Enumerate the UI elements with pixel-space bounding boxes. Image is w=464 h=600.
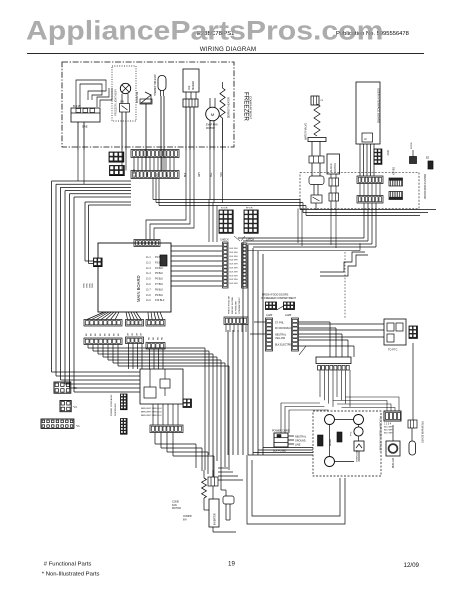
PTC plug [409, 326, 417, 338]
svg-text:*J4: *J4 [73, 406, 77, 409]
svg-text:PTC COMPRESSOR UNIT ASSY: PTC COMPRESSOR UNIT ASSY [379, 416, 382, 452]
motor protector connector [408, 420, 417, 428]
svg-text:AppliancePartsPros.com: AppliancePartsPros.com [26, 15, 384, 45]
wire fan-out bundle right [147, 312, 150, 320]
evaporator fan motor [206, 107, 220, 121]
svg-text:BLK WH: BLK WH [230, 248, 238, 250]
motor protector capsule [409, 441, 416, 455]
svg-text:BLK WH: BLK WH [230, 268, 238, 270]
svg-text:BLK ELECTRIC: BLK ELECTRIC [275, 344, 292, 347]
svg-text:THERMISTOR EVAP: THERMISTOR EVAP [154, 74, 157, 96]
svg-text:CHECK: CHECK [220, 239, 229, 242]
svg-text:ST. PNL: ST. PNL [275, 322, 284, 325]
svg-text:P9 BLK: P9 BLK [155, 294, 164, 297]
water dispenser connector [309, 156, 324, 163]
svg-text:BLK WH: BLK WH [230, 264, 238, 266]
svg-text:INVERTER: INVERTER [215, 513, 217, 525]
main board component [160, 255, 167, 266]
svg-text:RD: RD [153, 336, 155, 340]
svg-text:J1-2: J1-2 [146, 261, 151, 264]
water valve connector [311, 96, 319, 105]
extra bus wire [248, 250, 361, 252]
svg-text:WATER VALVE: WATER VALVE [305, 123, 308, 140]
svg-text:LATCH: LATCH [246, 239, 254, 242]
svg-text:DEFROST HEATER: DEFROST HEATER [228, 97, 231, 118]
svg-text:FZ DR: FZ DR [221, 208, 228, 210]
svg-text:PTC: PTC [351, 431, 353, 436]
svg-text:FREEZER: FREEZER [243, 92, 250, 121]
svg-text:YEL: YEL [211, 172, 213, 177]
svg-text:BLK WHT: BLK WHT [384, 430, 394, 432]
svg-text:COMPARTMENT: COMPARTMENT [238, 296, 241, 314]
svg-text:GRN: GRN [86, 283, 88, 288]
svg-text:P2 BLK: P2 BLK [155, 256, 164, 259]
wires from middle strip downward [128, 344, 130, 370]
svg-text:19: 19 [228, 561, 235, 568]
wires from right strip downward [149, 349, 151, 369]
tall connector strip P2 [242, 243, 248, 288]
water valve coil [314, 104, 320, 136]
svg-text:FRESH FOOD DR: FRESH FOOD DR [229, 295, 231, 314]
wire protector [411, 428, 413, 441]
main board left connector J5 [94, 258, 103, 267]
svg-text:OR: OR [136, 332, 138, 336]
wires control to strip [152, 404, 154, 425]
dispenser actuator [309, 176, 324, 185]
spare dark connector upper [121, 394, 128, 410]
svg-text:P10 BLK: P10 BLK [155, 299, 165, 302]
svg-text:SAE: SAE [82, 125, 88, 129]
svg-text:MOTOR: MOTOR [172, 507, 181, 510]
svg-text:BZ: BZ [426, 157, 430, 160]
svg-text:POWER CORD: POWER CORD [272, 430, 290, 433]
svg-text:J1-6: J1-6 [146, 283, 151, 286]
wires control strip down [154, 433, 156, 445]
svg-text:BRN WHT ORN BLU: BRN WHT ORN BLU [141, 408, 162, 410]
svg-text:ICE: ICE [187, 85, 191, 90]
svg-text:WIRING DIAGRAM: WIRING DIAGRAM [200, 46, 256, 53]
dispenser dashed enclosure [300, 173, 419, 209]
svg-text:BLK WH: BLK WH [230, 260, 238, 262]
svg-text:FREEZER LIGHT ASSY: FREEZER LIGHT ASSY [115, 89, 118, 116]
svg-text:M: M [211, 112, 214, 117]
svg-text:BLK FUSED: BLK FUSED [273, 450, 287, 453]
board output strip middle lower [126, 337, 144, 344]
wire PTC to terminal [412, 343, 414, 420]
lower junction pins [318, 366, 321, 371]
wires freezer strip down to board area [85, 201, 131, 203]
svg-text:P3 BLK: P3 BLK [155, 261, 164, 264]
svg-text:J1-1: J1-1 [146, 256, 151, 259]
svg-text:P6 BLK: P6 BLK [155, 278, 164, 281]
board output strip left lower [84, 338, 122, 345]
spare connector 2x2 [60, 401, 71, 412]
svg-text:BLK WH: BLK WH [230, 279, 238, 281]
wires relay cluster [203, 498, 205, 510]
bus wires upper band [152, 179, 154, 200]
wires dispenser box to lower bus [297, 209, 299, 244]
start relay label block [318, 435, 324, 446]
connector below harness note [224, 317, 248, 325]
svg-text:# Functional Parts: # Functional Parts [44, 562, 92, 568]
svg-text:WIRING SHOWN: WIRING SHOWN [232, 296, 234, 314]
fresh food disconnect strip right [292, 318, 299, 351]
freezer lamp [120, 83, 130, 93]
freezer light switch [120, 104, 130, 113]
svg-text:KEYBD: KEYBD [393, 167, 396, 175]
svg-text:OR: OR [141, 332, 143, 336]
auger connector 1 [329, 178, 339, 186]
wires freezer strips to left bundle [52, 180, 132, 182]
compressor run winding terminal [325, 457, 335, 467]
spare connector 3x2 [54, 382, 71, 393]
freezer door terminal block [71, 108, 100, 122]
control inner component 2 [160, 379, 170, 388]
fresh food lamp plug right [284, 302, 295, 310]
dark label block inner [337, 432, 342, 442]
svg-text:MOTOR: MOTOR [334, 163, 337, 172]
freezer harness connector strip upper [131, 150, 179, 158]
fresh food disconnect strip left [266, 318, 273, 351]
wire between lamp plugs [277, 306, 284, 310]
wires between UI strips [359, 184, 361, 196]
svg-text:FRESH FOOD DOOR: FRESH FOOD DOOR [423, 174, 426, 199]
main board box [98, 243, 171, 312]
stair wires to fresh food box [320, 252, 365, 272]
keyboard ribbon connector upper [389, 178, 403, 186]
PTC interface box [384, 319, 406, 345]
svg-text:RUN CAP: RUN CAP [392, 457, 395, 468]
wire from resistor top [203, 470, 205, 478]
UI harness strip lower [357, 196, 383, 204]
svg-text:BLK WHT: BLK WHT [384, 427, 394, 429]
power cord leads [288, 435, 294, 437]
wires from disconnect right [299, 321, 331, 323]
wires fan motor [209, 98, 211, 108]
wires from door block [77, 122, 79, 150]
control inner wires [149, 369, 151, 387]
svg-text:GRN: GRN [84, 283, 86, 288]
svg-text:J1-9: J1-9 [146, 299, 151, 302]
svg-text:RD: RD [157, 336, 159, 340]
svg-text:*J3: *J3 [73, 387, 77, 390]
svg-text:DISP: DISP [386, 150, 388, 156]
wires disconnect to left [254, 321, 266, 323]
wires junction to power cord [281, 403, 320, 433]
spare connector 7x2 [41, 419, 74, 428]
header rule [27, 53, 424, 55]
compressor compartment dashed box [313, 411, 381, 476]
auger connector 2 [329, 193, 339, 201]
control cluster box [140, 369, 183, 404]
user interface connector J2 [362, 133, 373, 142]
freezer wires extended to bus [146, 150, 186, 240]
svg-text:GRN: GRN [92, 283, 94, 288]
ice maker box [183, 69, 199, 92]
svg-text:RD: RD [149, 336, 151, 340]
PTC starter circle lower [354, 427, 363, 436]
svg-text:OR: OR [128, 332, 130, 336]
board output strip right [146, 320, 165, 327]
wires water valve down [311, 142, 313, 157]
relay top connector [208, 477, 218, 486]
wire defrost heater [222, 82, 224, 88]
PTC starter circle upper [354, 415, 364, 425]
wires bus to PTC box [299, 323, 384, 325]
svg-text:1 2 3 4: 1 2 3 4 [384, 424, 392, 426]
freezer light dotted box [112, 66, 136, 121]
svg-text:FF DR: FF DR [246, 208, 253, 210]
svg-text:MAKER: MAKER [191, 81, 195, 90]
svg-text:GROUND: GROUND [295, 439, 306, 442]
svg-text:GRN: GRN [89, 283, 91, 288]
dark connector plug lower [110, 166, 125, 176]
svg-text:P4 BLK: P4 BLK [155, 267, 164, 270]
control inner component 1 [144, 387, 156, 398]
left bundle lower bends [52, 371, 141, 373]
wires auger to lower bus [330, 210, 332, 245]
wires from junction down [319, 370, 321, 397]
long return wires bottom [247, 455, 345, 524]
board output strip left [84, 320, 122, 327]
central wire bundle [227, 330, 229, 455]
svg-text:BRN WHT ORN BLU: BRN WHT ORN BLU [141, 412, 162, 414]
wires between freezer strips [133, 158, 135, 171]
svg-text:12/09: 12/09 [404, 562, 420, 569]
svg-text:P8 BLK: P8 BLK [155, 288, 164, 291]
wires junction to compressor terminal [333, 401, 387, 412]
wire run capacitor [392, 425, 394, 441]
door alarm component [410, 157, 417, 164]
wires from harness connector down [225, 325, 227, 333]
svg-text:B R W: B R W [73, 104, 81, 108]
svg-text:*J1: *J1 [76, 425, 80, 428]
board output strip middle [126, 320, 144, 327]
svg-text:INV: INV [183, 520, 187, 522]
svg-text:COMPR: COMPR [183, 516, 192, 518]
main board connector top [134, 240, 160, 247]
svg-text:WHT: WHT [167, 171, 169, 177]
run capacitor [386, 441, 400, 456]
power cord plug [274, 433, 288, 447]
svg-text:AUGER: AUGER [330, 163, 333, 172]
svg-text:BRN WHT ORN BLU: BRN WHT ORN BLU [141, 415, 162, 417]
control dark plug [183, 399, 191, 407]
board right harness wires [171, 245, 222, 247]
svg-text:LAMP: LAMP [285, 314, 292, 317]
svg-text:BLK WH: BLK WH [230, 275, 238, 277]
ice maker connector [183, 99, 198, 107]
svg-text:FF DOOR-BLK: FF DOOR-BLK [275, 327, 291, 330]
svg-text:J1-8: J1-8 [146, 294, 151, 297]
wires dispenser switch [313, 185, 315, 196]
freezer door wiring loop [76, 80, 106, 108]
fresh food lamp plug left [266, 302, 277, 310]
svg-text:IN FREEZER: IN FREEZER [236, 301, 238, 314]
wires ice maker [185, 92, 187, 99]
lower junction connector bar [316, 357, 351, 364]
svg-text:IN FREEZER COMPARTMENT: IN FREEZER COMPARTMENT [261, 297, 296, 300]
freezer door harness hook [97, 88, 109, 107]
svg-text:USER INTERFACE BOARD: USER INTERFACE BOARD [377, 88, 381, 123]
compressor relay box [209, 499, 219, 527]
svg-text:P5 BLK: P5 BLK [155, 272, 164, 275]
check latch pointer lines [234, 236, 240, 241]
UI dark connector [374, 149, 382, 164]
svg-text:J1-4: J1-4 [146, 272, 151, 275]
svg-text:FROM MAIN BOARD: FROM MAIN BOARD [421, 421, 424, 443]
user interface board box [356, 82, 380, 144]
freezer door light switch [141, 95, 151, 103]
svg-text:OR: OR [132, 332, 134, 336]
dashed sensor wire [344, 252, 346, 318]
wires from left strips downward [87, 345, 89, 349]
svg-text:VIO: VIO [157, 173, 159, 177]
wire fan-out bundle left [87, 312, 104, 320]
dark connector plug upper [109, 152, 124, 162]
condenser fan resistor [202, 478, 207, 498]
svg-text:BLK WH: BLK WH [230, 256, 238, 258]
dispenser switch [311, 195, 322, 203]
water valve base bar [308, 138, 326, 142]
check plug dark connector [219, 210, 233, 233]
svg-text:LINE: LINE [295, 443, 301, 446]
freezer harness connector strip lower [131, 171, 179, 179]
bundle bend to compressor [248, 454, 313, 456]
svg-text:OVERLOAD: OVERLOAD [356, 449, 359, 462]
svg-text:BLK WHT: BLK WHT [384, 433, 394, 435]
auger motor box [327, 154, 340, 174]
control output strip [150, 425, 183, 433]
bundle to relay cluster [218, 467, 228, 469]
svg-text:BLK WH: BLK WH [230, 271, 238, 273]
svg-text:J1-5: J1-5 [146, 278, 151, 281]
freezer compartment dashed enclosure [62, 62, 234, 147]
svg-text:GRY: GRY [199, 172, 201, 177]
svg-text:DISPENSER: DISPENSER [115, 403, 117, 416]
wires bundle into relay cluster [204, 452, 206, 470]
compressor internal wires [329, 425, 331, 457]
svg-text:DOOR: DOOR [411, 142, 413, 149]
freezer light bulb capsule [158, 76, 166, 91]
svg-text:POWER CORD ASSY: POWER CORD ASSY [110, 394, 113, 416]
UI harness strip upper [357, 176, 383, 184]
svg-text:TO PTC: TO PTC [388, 348, 398, 352]
wires disconnect bends down [329, 322, 331, 357]
diagonal jumper mark [299, 346, 306, 355]
svg-text:DOOR SW: DOOR SW [137, 91, 139, 103]
svg-text:BLK WH: BLK WH [230, 283, 238, 285]
svg-text:YELLOW: YELLOW [275, 337, 286, 340]
compressor start winding terminal [325, 415, 335, 425]
latch plug dark connector [244, 210, 258, 233]
keyboard ribbon connector lower [389, 192, 403, 200]
wire fan-out bundle middle [126, 312, 128, 320]
wire from door switch [145, 104, 147, 150]
svg-text:MAIN BOARD: MAIN BOARD [136, 275, 141, 302]
wires from light box [121, 94, 123, 104]
wires to dispenser switch [311, 163, 313, 176]
spare dark connector lower [121, 419, 128, 435]
svg-text:NEUTRAL: NEUTRAL [295, 435, 307, 438]
defrost heater resistor [220, 88, 225, 118]
small relay component [223, 496, 234, 504]
buzzer component [428, 161, 433, 169]
wires UI strips down to main bus [363, 203, 365, 238]
svg-text:J1-7: J1-7 [146, 288, 151, 291]
compressor terminal connector [384, 411, 401, 421]
overload protector [354, 441, 364, 451]
wire from bulb [160, 96, 162, 150]
board output strip right lower [146, 343, 165, 350]
tall connector strip P1 [223, 242, 229, 288]
wires auger [330, 174, 332, 178]
svg-text:* Non-Illustrated Parts: * Non-Illustrated Parts [42, 571, 100, 577]
svg-text:P7 BLK: P7 BLK [155, 283, 164, 286]
svg-text:BLK WH: BLK WH [230, 252, 238, 254]
svg-text:LAMP: LAMP [266, 314, 273, 317]
svg-text:RD: RD [162, 336, 164, 340]
svg-text:COMPARTMENT: COMPARTMENT [249, 96, 253, 119]
svg-text:J1-3: J1-3 [146, 267, 151, 270]
wires UI board down [359, 144, 361, 176]
